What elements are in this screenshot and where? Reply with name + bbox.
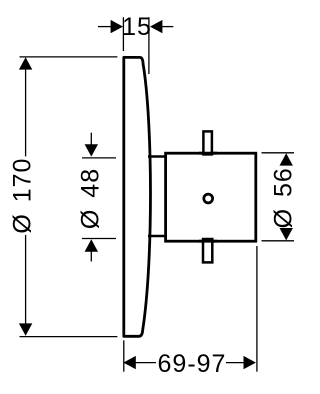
collar upper edge — [148, 155, 167, 158]
dim 15 right leader line — [162, 26, 173, 28]
dim 69-97 left arrowhead — [123, 356, 135, 369]
valve body — [166, 153, 256, 241]
dim 48 lower extension line — [82, 238, 116, 240]
dim 15 left extension line — [122, 17, 124, 51]
dim 69-97 right arrowhead — [244, 356, 256, 369]
svg-text:69-97: 69-97 — [158, 350, 227, 378]
svg-text:Ø 48: Ø 48 — [77, 168, 105, 229]
body top edge across stub — [199, 152, 217, 155]
dim 69-97 right extension line — [256, 246, 258, 372]
dim 15 right arrowhead — [150, 20, 162, 33]
dim 69-97 dimension line right segment — [226, 362, 245, 364]
top pipe stub — [203, 131, 212, 154]
dim 48 upper arrowhead — [85, 144, 98, 156]
dim 69-97 left extension line — [123, 340, 125, 371]
dim 56 top arrowhead — [280, 153, 293, 165]
dim 48 lower arrowhead — [85, 239, 98, 251]
dim 48 upper extension line — [82, 157, 116, 159]
dim 48 lower dimension line — [90, 251, 92, 262]
svg-text:Ø 56: Ø 56 — [270, 167, 298, 228]
dim 15 left arrowhead — [111, 20, 123, 33]
bottom pipe stub — [203, 239, 212, 262]
dim 170 bottom arrowhead — [19, 323, 32, 335]
collar lower edge — [148, 235, 167, 238]
dim 56 bottom arrowhead — [280, 228, 293, 240]
dim 56 top extension line — [262, 152, 295, 154]
dim 170 bottom extension line — [20, 336, 118, 338]
body bottom edge across stub — [199, 240, 217, 243]
dim 48 upper dimension line — [90, 133, 92, 146]
dim 69-97 dimension line left segment — [135, 362, 156, 364]
dim 170 top arrowhead — [19, 57, 32, 69]
center screw hole — [204, 194, 213, 203]
escutcheon plate (side view) — [124, 57, 151, 336]
dim 170 dimension line lower segment — [25, 235, 27, 324]
dim 170 dimension line upper segment — [25, 68, 27, 156]
dim 170 top extension line — [20, 56, 118, 58]
svg-text:Ø 170: Ø 170 — [9, 158, 37, 234]
dim 15 right extension line — [148, 17, 150, 74]
dim 15 left leader line — [98, 26, 111, 28]
svg-text:15: 15 — [122, 13, 152, 41]
dim 56 bottom extension line — [262, 240, 295, 242]
